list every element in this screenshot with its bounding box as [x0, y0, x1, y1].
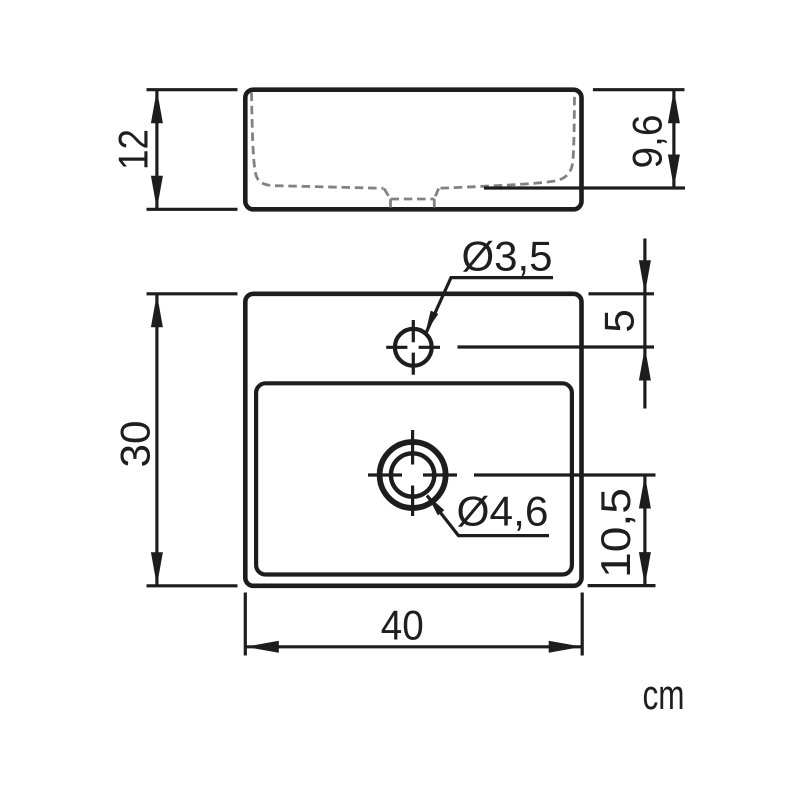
svg-text:40: 40 [381, 602, 424, 649]
leader arrowhead faucet [426, 311, 439, 333]
leader line for faucet hole label [426, 278, 553, 333]
dimension 5: arrowheads [639, 260, 651, 294]
plan view: inner basin outline [256, 383, 572, 574]
faucet hole centerlines [386, 320, 440, 375]
dimension 9,6: arrowheads [668, 90, 680, 124]
drain outer flange circle [380, 442, 446, 508]
dimension 30: arrowheads [151, 294, 163, 328]
svg-text:Ø4,6: Ø4,6 [457, 488, 549, 535]
svg-text:9,6: 9,6 [624, 115, 671, 169]
dimension 10,5: arrowheads [639, 475, 651, 509]
dimension 12: dimension line [155, 90, 158, 210]
dimension 40: extension lines [244, 593, 247, 656]
dimension 40: dimension line [245, 645, 582, 648]
dimension 12: extension lines [147, 88, 238, 91]
drain centerlines [368, 430, 457, 516]
dimension 9,6: dimension line [672, 90, 675, 188]
svg-text:5: 5 [596, 309, 643, 332]
svg-text:10,5: 10,5 [592, 488, 639, 578]
dimension 5: dimension line with overshoots [643, 239, 646, 348]
dimension 10,5: dimension line [643, 475, 646, 586]
dimension 12: arrowheads [151, 90, 163, 124]
extension line from faucet centre [458, 345, 655, 348]
side view: interior profile hidden line [252, 93, 575, 189]
extension line from drain centre [474, 473, 656, 476]
svg-text:30: 30 [112, 421, 159, 468]
dimension 10,5: extension line bottom [588, 584, 656, 587]
svg-text:cm: cm [643, 671, 685, 718]
svg-text:Ø3,5: Ø3,5 [462, 233, 553, 280]
plan view: outer rim outline [245, 294, 581, 586]
dimension 5: extension line top [589, 292, 655, 295]
leader arrowhead drain [428, 495, 445, 515]
leader line for drain hole label [427, 496, 549, 536]
faucet hole circle [395, 329, 432, 366]
drain hole circle [391, 453, 434, 496]
dimension 30: dimension line [155, 294, 158, 586]
dimension 9,6: extension lines [593, 88, 685, 91]
side view: drain trap hidden outline [384, 189, 439, 209]
side view: basin outer outline [245, 90, 581, 210]
dimension 30: extension lines [147, 292, 238, 295]
dimension 40: arrowheads [245, 641, 278, 653]
svg-text:12: 12 [110, 129, 157, 170]
